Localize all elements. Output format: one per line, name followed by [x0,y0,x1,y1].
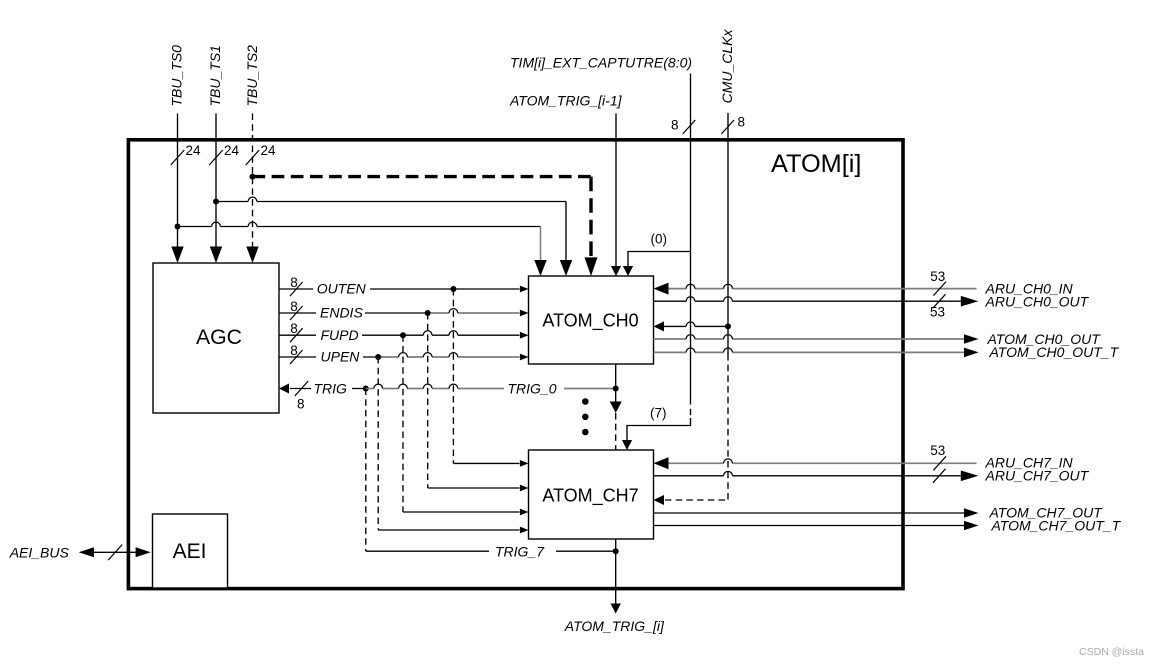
arrow OUTEN into ATOM_CH0 [520,286,529,293]
svg-text:(7): (7) [650,406,667,421]
label ARU_CH7_IN [985,454,1074,470]
junction dot TBU_TS2 [250,174,256,180]
svg-text:ARU_CH7_OUT: ARU_CH7_OUT [985,467,1090,483]
wire FUPD elbow into ATOM_CH7 [403,511,520,513]
arrow FUPD into ATOM_CH7 [520,509,529,516]
svg-text:8: 8 [290,299,298,314]
ellipsis dots channels 1..6 [582,398,589,435]
wire TBU_TS1 branch to ATOM_CH0 [216,197,566,260]
arrow UPEN into ATOM_CH0 [520,354,529,361]
arrow ATOM_CH7_OUT_T [964,521,979,531]
arrow ARU_CH7_OUT [961,471,979,482]
arrow ATOM_CH0_OUT [964,334,979,344]
label ATOM[i] [771,150,861,178]
label TRIG_0 [508,380,557,396]
arrow (7) into ATOM_CH7 [622,440,632,450]
arrow TBU_TS1 into AGC [210,247,222,264]
svg-text:CMU_CLKx: CMU_CLKx [719,28,735,103]
wire TRIG_0 gray [366,384,616,388]
wire AEI_BUS [92,551,138,553]
wire trigger chain from ATOM_CH0 [615,364,617,403]
wire OUTEN dashed drop [452,289,454,463]
label CMU_CLKx [719,28,735,103]
wire OUTEN [279,288,520,290]
svg-text:TBU_TS2: TBU_TS2 [244,45,260,107]
label FUPD [321,327,359,343]
block AGC [153,263,279,413]
svg-text:8: 8 [671,117,679,132]
bus slash OUTEN 8 [290,275,303,296]
wire ATOM_TRIG_[i-1] vertical [615,114,617,268]
svg-text:ATOM_TRIG_[i-1]: ATOM_TRIG_[i-1] [509,93,623,109]
svg-text:53: 53 [930,269,945,284]
block AEI [153,514,228,588]
wire TRIG_7 [366,550,616,552]
svg-text:53: 53 [930,305,945,320]
wire TBU_TS2 thick dashed branch to ATOM_CH0 [253,177,592,256]
svg-text:AEI: AEI [173,540,207,563]
arrow TBU_TS2 branch into ATOM_CH0 [585,257,598,276]
bus slash ARU_CH0_OUT 53 [930,294,946,319]
svg-text:ATOM_CH0: ATOM_CH0 [542,310,638,331]
label TBU_TS1 [207,45,223,106]
svg-text:ATOM_TRIG_[i]: ATOM_TRIG_[i] [564,618,665,634]
arrow ARU_CH0_IN into ATOM_CH0 [654,283,669,295]
wire TRIG [290,388,366,390]
arrow ATOM_TRIG_[i] out [611,604,621,614]
svg-text:53: 53 [930,443,945,458]
wire ATOM_CH0_OUT gray [654,335,965,339]
label ATOM_CH7_OUT_T [991,517,1122,533]
svg-text:8: 8 [290,321,298,336]
svg-text:FUPD: FUPD [321,327,359,343]
svg-text:OUTEN: OUTEN [317,281,367,297]
wire UPEN dashed drop [377,357,379,530]
wire ATOM_CH0_OUT_T gray [654,348,965,352]
label ATOM_TRIG_[i-1] [509,93,623,109]
label ATOM_CH0_OUT [987,331,1102,347]
wire CMU_CLKx dashed into ATOM_CH7 [665,499,728,501]
label UPEN [321,348,361,364]
arrow ATOM_CH0_OUT_T [964,348,979,358]
arrow OUTEN into ATOM_CH7 [520,460,529,467]
svg-text:8: 8 [290,343,298,358]
svg-text:TBU_TS0: TBU_TS0 [169,45,185,107]
svg-text:8: 8 [290,275,298,290]
wire ARU_CH7_OUT [654,471,962,475]
wire ATOM_CH7_OUT [654,512,965,514]
junction dot TRIG [363,386,369,392]
arrow AEI_BUS right [136,547,151,557]
label ATOM_CH0_OUT_T [989,344,1120,360]
svg-text:24: 24 [261,143,277,158]
bus slash TIM 8 [671,117,695,134]
junction dot OUTEN [450,286,456,292]
bus slash TBU_TS0 24 [171,143,201,165]
junction dot UPEN [375,354,381,360]
svg-text:TIM[i]_EXT_CAPTUTRE(8:0): TIM[i]_EXT_CAPTUTRE(8:0) [510,55,692,71]
bus slash UPEN 8 [290,343,303,364]
outer module box ATOM[i] [128,140,903,589]
arrow UPEN into ATOM_CH7 [520,527,529,534]
svg-text:TRIG: TRIG [314,380,348,396]
block ATOM_CH7 [529,450,654,539]
bus slash TRIG 8 [295,381,309,412]
junction dot FUPD [400,332,406,338]
bus slash AEI_BUS [108,545,122,561]
bus slash ARU_CH0_IN 53 [930,269,946,296]
svg-text:8: 8 [738,115,746,130]
svg-text:24: 24 [186,143,202,158]
wire OUTEN elbow into ATOM_CH7 [453,462,519,464]
arrow ENDIS into ATOM_CH0 [520,310,529,317]
arrow ENDIS into ATOM_CH7 [520,485,529,492]
wire TBU_TS2 vertical dashed [252,114,254,247]
label TBU_TS2 [244,45,260,107]
label TIM[i]_EXT_CAPTUTRE(8:0) [510,55,692,71]
arrow CMU_CLKx into ATOM_CH7 [654,495,665,505]
node (7) tap [650,406,667,421]
svg-text:TRIG_7: TRIG_7 [495,544,545,560]
wire CMU_CLKx vertical [727,113,729,354]
label AEI_BUS [9,544,70,560]
wire ARU_CH0_OUT [654,297,962,301]
arrow TRIG into AGC [279,384,289,394]
junction dot TBU_TS1 [213,199,219,205]
svg-text:(0): (0) [651,232,668,247]
arrow ARU_CH7_IN into ATOM_CH7 [654,457,669,469]
label ATOM_CH7_OUT [989,505,1104,521]
svg-text:AEI_BUS: AEI_BUS [9,544,70,560]
svg-text:ATOM_CH7: ATOM_CH7 [542,486,638,507]
svg-text:ENDIS: ENDIS [320,305,363,321]
wire ATOM_CH7_OUT_T [654,525,965,527]
svg-text:AGC: AGC [196,326,242,349]
arrow TBU_TS0 branch into ATOM_CH0 [534,260,546,276]
wire TRIG dashed drop [365,389,367,552]
arrow AEI_BUS left [79,547,94,557]
arrow (0) into ATOM_CH0 [623,266,633,276]
wire (0) elbow into ATOM_CH0 [628,252,691,268]
wire ENDIS [279,309,520,313]
label TRIG [314,380,348,396]
wire UPEN [279,353,520,357]
wire ARU_CH0_IN gray [667,284,977,288]
label ARU_CH0_IN [985,280,1074,296]
svg-text:ARU_CH0_OUT: ARU_CH0_OUT [985,294,1090,310]
label OUTEN [317,281,367,297]
bus slash ENDIS 8 [290,299,303,320]
wire UPEN elbow into ATOM_CH7 [378,529,519,531]
wire trigger chain from ATOM_CH7 [615,539,617,605]
svg-text:ATOM[i]: ATOM[i] [771,150,861,178]
bus slash TBU_TS2 24 [246,143,276,165]
wire FUPD dashed drop [402,335,404,512]
label ARU_CH0_OUT [985,294,1090,310]
arrow TBU_TS0 into AGC [171,247,183,264]
junction dot TRIG_7 [613,548,619,554]
svg-text:24: 24 [224,143,240,158]
label ENDIS [320,305,363,321]
bus slash FUPD 8 [290,321,303,342]
svg-text:UPEN: UPEN [321,348,361,364]
wire (7) elbow into ATOM_CH7 [627,418,691,441]
junction dot CMU_CLKx [725,323,731,329]
arrow FUPD into ATOM_CH0 [520,332,529,339]
arrow trigger chain mid [610,402,622,414]
svg-text:TRIG_0: TRIG_0 [508,380,557,396]
watermark [1079,646,1144,658]
arrow CMU_CLKx into ATOM_CH0 [654,321,665,331]
junction dot ENDIS [425,310,431,316]
label ARU_CH7_OUT [985,467,1090,483]
arrow ATOM_TRIG_[i-1] into ATOM_CH0 [611,266,621,276]
wire TIM capture vertical [690,74,692,399]
wire TBU_TS1 vertical [215,114,217,247]
junction dot TBU_TS0 [175,224,181,230]
arrow ATOM_CH7_OUT [964,508,979,518]
bus slash ARU_CH7_OUT 53 [933,469,946,483]
wire trigger chain dashed [615,413,617,450]
svg-text:TBU_TS1: TBU_TS1 [207,45,223,106]
svg-text:8: 8 [297,397,305,412]
svg-text:ATOM_CH7_OUT_T: ATOM_CH7_OUT_T [991,517,1122,533]
wire ENDIS elbow into ATOM_CH7 [428,487,520,489]
wire CMU_CLKx into ATOM_CH0 [664,322,728,326]
arrow TBU_TS2 into AGC [246,247,258,264]
arrow TBU_TS1 branch into ATOM_CH0 [560,260,572,276]
bus slash CMU 8 [721,115,745,134]
bus slash ARU_CH7_IN 53 [930,443,946,471]
bus slash TBU_TS1 24 [209,143,239,165]
label ATOM_TRIG_[i] [564,618,665,634]
block ATOM_CH0 [529,276,654,364]
wire TBU_TS0 vertical [177,114,179,247]
junction dot TRIG_0 [613,386,619,392]
wire ARU_CH7_IN gray [667,459,977,463]
arrow ARU_CH0_OUT [961,296,979,307]
wire TIM capture dashed segment [690,398,692,418]
wire TBU_TS0 branch to ATOM_CH0 [178,222,541,260]
label TBU_TS0 [169,45,185,107]
label TRIG_7 [495,544,545,560]
wire CMU_CLKx dashed vertical [727,354,729,500]
wire ENDIS dashed drop [427,313,429,488]
svg-text:ATOM_CH0_OUT_T: ATOM_CH0_OUT_T [989,344,1120,360]
wire FUPD [279,331,520,335]
node (0) tap [651,232,668,247]
svg-text:CSDN @issta: CSDN @issta [1079,646,1144,658]
